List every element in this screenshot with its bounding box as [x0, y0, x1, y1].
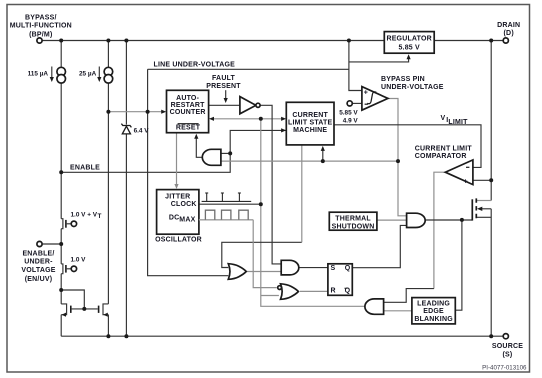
transistor M4 mirror right — [103, 304, 108, 315]
wire MOSFET source vertical — [490, 209, 492, 336]
svg-text:UNDER-: UNDER- — [24, 259, 53, 266]
svg-text:UNDER-VOLTAGE: UNDER-VOLTAGE — [381, 84, 444, 91]
current source I2 25uA — [104, 67, 113, 76]
wire enable horizontal — [61, 130, 286, 172]
node clock wire junction — [259, 202, 263, 206]
box SR latch — [328, 264, 352, 296]
wire clock vertical feed (gray) — [260, 119, 262, 296]
svg-text:25 µA: 25 µA — [79, 71, 97, 78]
wire mirror gate bus — [72, 308, 98, 310]
svg-text:MACHINE: MACHINE — [293, 127, 327, 134]
svg-text:+: + — [464, 178, 468, 185]
pin DRAIN terminal — [503, 38, 508, 43]
svg-text:LIMIT STATE: LIMIT STATE — [288, 120, 332, 127]
wire OR1 output to AND2 (gray) — [246, 271, 281, 273]
arrow into regulator bottom — [407, 54, 411, 59]
wire AND2 output to latch S — [299, 267, 328, 269]
arrow into CLSM enable input — [281, 128, 286, 132]
box current limit state machine — [286, 102, 334, 145]
svg-text:(D): (D) — [504, 30, 514, 37]
svg-text:115 µA: 115 µA — [28, 71, 49, 78]
pin EN/UV terminal — [37, 241, 42, 246]
arrow into CLSM clock input — [281, 117, 286, 121]
waveform DCMAX square wave (gray) — [199, 219, 253, 221]
wire current-limit comparator output (gray) — [434, 172, 445, 288]
wire 115uA branch lower / EN-UV chain — [60, 83, 62, 219]
gate NOR3 input bubble — [278, 286, 282, 290]
wire NOR3 lower input stub (gray) — [261, 295, 279, 297]
op-amp U1 bypass pin under-voltage comparator — [362, 87, 388, 111]
svg-text:ENABLE: ENABLE — [70, 164, 100, 171]
node bus/regulator branch — [347, 39, 351, 43]
svg-text:RESTART: RESTART — [171, 102, 205, 109]
node rail/zener — [124, 334, 128, 338]
wire line-under-voltage vertical down to OR1 — [148, 69, 229, 275]
box auto-restart counter — [167, 90, 209, 132]
wire 25uA branch lower — [107, 83, 109, 304]
current source I2 arrow — [98, 67, 100, 79]
transistor M2 EN/UV lower sense FET — [61, 264, 63, 274]
wire bus to bypass-comparator plus input — [349, 41, 362, 91]
svg-text:OSCILLATOR: OSCILLATOR — [155, 236, 202, 243]
svg-text:+: + — [364, 90, 368, 97]
svg-text:MULTI-FUNCTION: MULTI-FUNCTION — [10, 23, 72, 30]
svg-text:FAULT: FAULT — [212, 75, 236, 82]
wire 115uA branch upper — [60, 41, 62, 68]
node ARC input / 25uA line — [106, 110, 110, 114]
wire clock to ARC and CLSM (gray) — [212, 118, 285, 120]
wire source rail — [61, 335, 503, 337]
waveform jitter clock impulses — [202, 193, 252, 201]
svg-text:S: S — [331, 265, 336, 272]
transistor Q1 body arrow — [477, 207, 482, 211]
wire thermal-shutdown to AND (gray) — [377, 219, 407, 221]
node feedback / comparator output — [396, 159, 400, 163]
svg-text:CURRENT LIMIT: CURRENT LIMIT — [415, 145, 473, 152]
svg-text:V: V — [441, 115, 446, 122]
svg-text:DRAIN: DRAIN — [497, 22, 520, 29]
wire CLSM-reset path to OR1 top input — [222, 242, 302, 267]
svg-text:VOLTAGE: VOLTAGE — [21, 267, 55, 274]
wire thermal AND output to MOSFET gate — [425, 219, 472, 221]
wire BP/M top bus — [42, 40, 503, 42]
wire regulator feed — [349, 57, 409, 62]
wire ARC to inverter — [209, 104, 240, 106]
svg-text:(BP/M): (BP/M) — [29, 31, 52, 38]
wire bypass comparator output (gray) — [388, 99, 407, 216]
gate AND4 current-limit/LEB (points left) — [365, 299, 384, 314]
wire zener branch upper — [125, 41, 127, 125]
node enable tap — [59, 170, 63, 174]
svg-text:EDGE: EDGE — [423, 308, 444, 315]
wire 5.85V circle stub — [352, 102, 362, 104]
wire line-under-voltage horizontal — [148, 68, 349, 70]
svg-text:SOURCE: SOURCE — [492, 343, 523, 350]
node enable / reset-AND — [228, 151, 232, 155]
wire CLSM bottom vertical (gray) — [301, 145, 303, 242]
wire LEB output to AND4 input2 (gray) — [384, 310, 412, 312]
svg-text:LINE UNDER-VOLTAGE: LINE UNDER-VOLTAGE — [154, 61, 236, 68]
wire latch Q to thermal AND — [352, 225, 406, 267]
svg-text:PRESENT: PRESENT — [206, 83, 241, 90]
wire EN/UV chain mid — [60, 229, 62, 264]
node bus/25uA — [106, 39, 110, 43]
svg-text:R: R — [331, 288, 336, 295]
node drain sense — [489, 178, 493, 182]
wire drain sense to comparator plus — [473, 179, 491, 181]
wire EN/UV chain lower — [60, 274, 62, 304]
pin 5.85V comparator reference terminal — [347, 101, 352, 106]
wire oscillator clock output — [199, 203, 261, 205]
svg-text:(EN/UV): (EN/UV) — [25, 276, 52, 283]
wire MOSFET drain stub (gray) — [477, 200, 492, 202]
node ARC input / line-UV — [146, 110, 150, 114]
wire inverter output down to AND2 top input — [260, 105, 281, 264]
svg-text:CURRENT: CURRENT — [292, 112, 328, 119]
wire V-ILIMIT from CLSM to comparator minus — [334, 125, 481, 168]
svg-text:BYPASS/: BYPASS/ — [25, 14, 57, 21]
wire MOSFET source stub — [477, 216, 492, 218]
svg-text:LEADING: LEADING — [417, 301, 450, 308]
current source I1 arrow — [51, 67, 53, 79]
wire mirror gate loop — [61, 290, 84, 309]
wire AND4 output to NOR3 node (gray) — [261, 296, 365, 307]
node mirror gate — [82, 307, 86, 311]
node EN/UV pin junction — [59, 242, 63, 246]
svg-text:Q: Q — [345, 288, 351, 295]
wire 25uA to ARC input (gray) — [108, 111, 164, 113]
svg-text:MAX: MAX — [179, 216, 195, 223]
hysteresis symbol inside U1 — [367, 92, 376, 104]
node rail/25uA — [106, 334, 110, 338]
wire CLSM bottom arrow stub — [322, 149, 324, 161]
node feedback / CLSM arrow — [321, 159, 325, 163]
wire zener branch lower — [125, 134, 127, 336]
pin BP/M terminal — [37, 38, 42, 43]
svg-text:RESET: RESET — [176, 125, 201, 132]
wire 25uA branch upper — [107, 41, 109, 68]
arrow into ARC right input (points left) — [209, 117, 214, 121]
wire drain vertical (upper) — [490, 41, 492, 201]
node bus/zener — [124, 39, 128, 43]
wire gate node to LEB input — [455, 220, 462, 310]
diode Z1 6.4V zener — [122, 126, 130, 134]
wire MOSFET body arrow wire — [479, 208, 491, 210]
box oscillator — [157, 190, 199, 235]
transistor M3 mirror left — [61, 304, 66, 315]
wire comparator output to AND4 input1 — [384, 289, 434, 303]
pin SOURCE terminal — [503, 334, 508, 339]
box regulator — [384, 32, 434, 54]
svg-text:1.0 V: 1.0 V — [71, 257, 87, 264]
svg-text:COMPARATOR: COMPARATOR — [415, 153, 467, 160]
wire reset-AND input1 stub — [221, 152, 230, 154]
label U2 minus-plus — [466, 166, 469, 168]
arrow into ARC left input — [161, 110, 166, 114]
svg-text:5.85 V: 5.85 V — [398, 44, 420, 51]
svg-text:(S): (S) — [503, 351, 513, 358]
node gate drive / LEB branch — [460, 218, 464, 222]
wire bypass-UV feedback horizontal (gray) — [221, 160, 398, 162]
svg-text:LIMIT: LIMIT — [448, 119, 468, 126]
gate OR1 fault/UV — [228, 264, 246, 280]
arrow fault present pointer — [225, 90, 227, 99]
wire DCMAX down to NOR3 bubble (gray) — [253, 220, 277, 288]
transistor M1 EN/UV upper sense FET — [61, 219, 63, 229]
svg-text:1.0 V + V: 1.0 V + V — [71, 212, 98, 219]
inverter U3 fault present — [240, 97, 256, 114]
wire EN/UV pin stub — [42, 243, 61, 245]
svg-text:Q: Q — [345, 265, 351, 272]
transistor Q1 channel (dashed) — [475, 198, 477, 218]
wire ARC to oscillator (gray) — [176, 133, 178, 186]
svg-text:T: T — [98, 213, 102, 220]
wire NOR3 output to latch R (gray) — [300, 290, 328, 292]
svg-text:AUTO-: AUTO- — [176, 95, 200, 102]
svg-text:6.4 V: 6.4 V — [134, 128, 150, 135]
svg-text:PI-4077-013106: PI-4077-013106 — [482, 364, 527, 371]
svg-text:ENABLE/: ENABLE/ — [22, 250, 54, 257]
transistor Q1 output MOSFET gate bar — [471, 199, 473, 220]
gate AND6 output driver — [407, 213, 426, 227]
svg-text:CLOCK: CLOCK — [171, 201, 197, 208]
arrow into CLSM bottom — [321, 146, 325, 151]
op-amp U2 current limit comparator (points left) — [445, 160, 473, 185]
svg-text:JITTER: JITTER — [165, 193, 190, 200]
svg-text:REGULATOR: REGULATOR — [386, 36, 432, 43]
wire reset-AND output to ARC RESET — [196, 137, 202, 157]
svg-text:4.9 V: 4.9 V — [343, 118, 359, 125]
node bus/115uA — [59, 39, 63, 43]
wire mirror-right source to rail — [107, 315, 109, 337]
node mirror drain loop — [59, 288, 63, 292]
node bus/drain — [489, 39, 493, 43]
arrow into oscillator top (gray) — [174, 184, 178, 189]
wire mirror-left source to rail — [60, 315, 62, 337]
svg-text:THERMAL: THERMAL — [335, 215, 371, 222]
gate AND2 set — [281, 260, 299, 275]
svg-text:SHUTDOWN: SHUTDOWN — [332, 223, 375, 230]
current source I1 115uA — [57, 67, 66, 76]
svg-text:COUNTER: COUNTER — [170, 109, 206, 116]
svg-text:DC: DC — [169, 215, 180, 222]
svg-text:5.85 V: 5.85 V — [339, 110, 358, 117]
gate AND5 reset (points left) — [202, 149, 221, 165]
svg-text:BLANKING: BLANKING — [414, 316, 453, 323]
svg-text:BYPASS PIN: BYPASS PIN — [381, 76, 425, 83]
gate NOR3 (bubbled input) — [281, 284, 299, 300]
arrow into ARC RESET — [194, 134, 198, 139]
inverter U3 bubble — [256, 103, 260, 107]
box thermal shutdown — [329, 212, 377, 230]
box leading edge blanking — [412, 298, 455, 324]
node clock / ARC-CLSM wire — [259, 117, 263, 121]
node rail/source FET — [489, 334, 493, 338]
